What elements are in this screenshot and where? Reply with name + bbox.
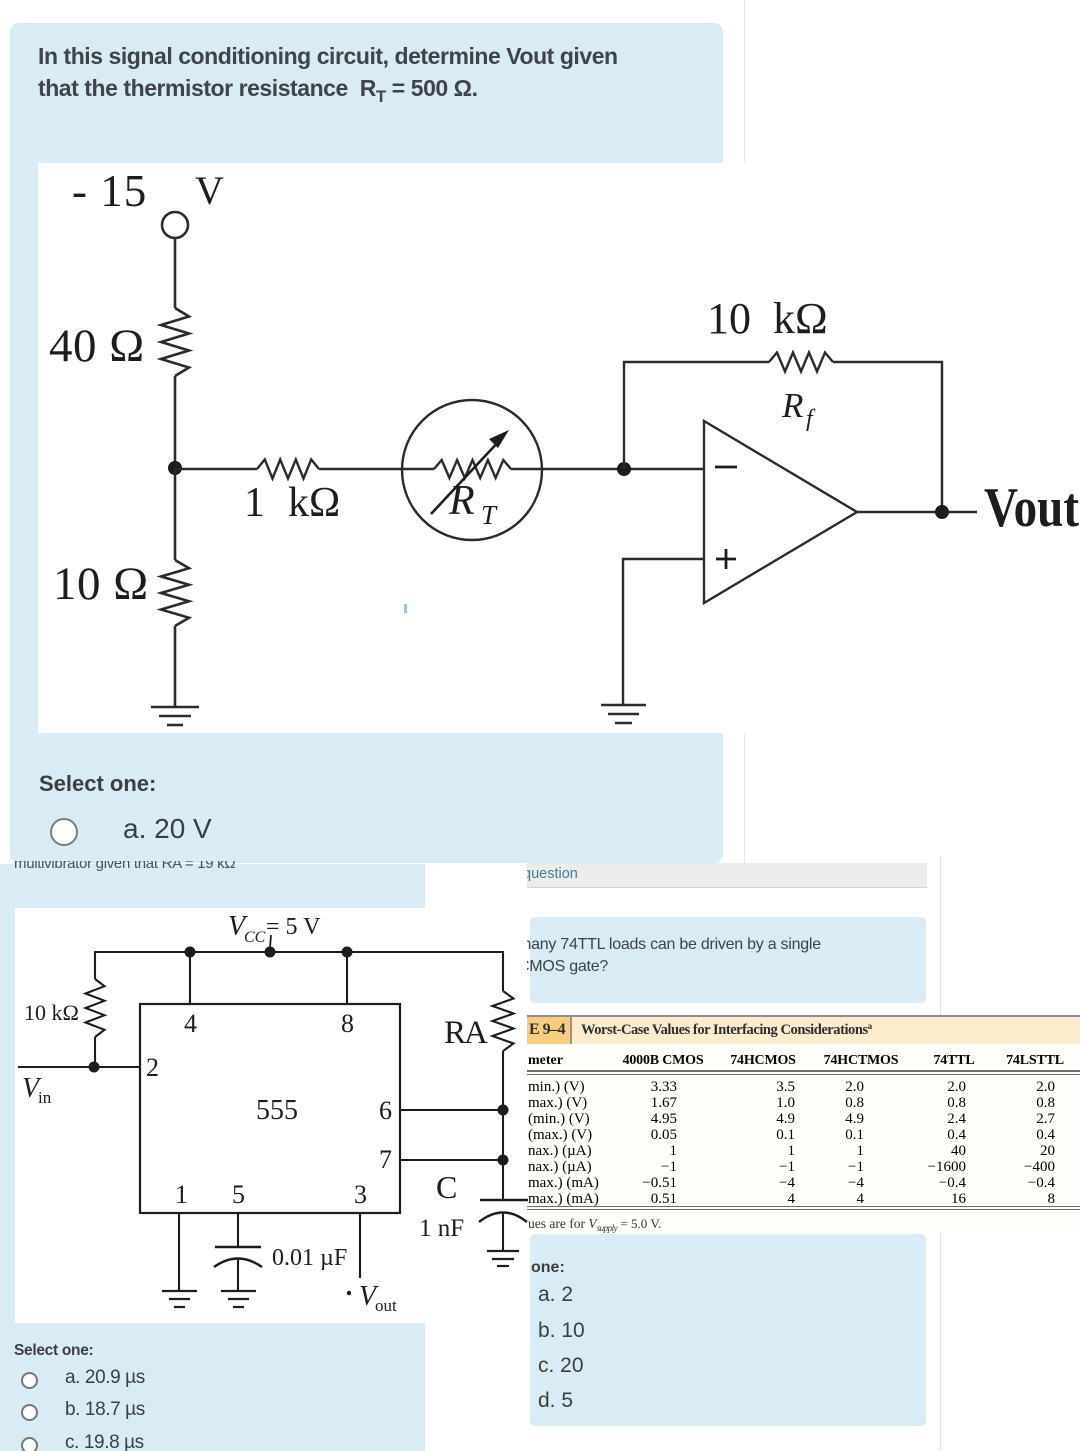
- ground (pin5): [221, 1290, 256, 1292]
- svg-text:555: 555: [256, 1095, 298, 1126]
- select one (card 1): [39, 771, 156, 797]
- wire plus input to ground: [623, 559, 704, 705]
- faint card divider line (upper right): [744, 0, 745, 863]
- wire Vin to pin 2: [18, 1066, 140, 1068]
- wire 1k to thermistor RT: [319, 468, 403, 470]
- pin 6 wire: [400, 1109, 503, 1111]
- RT zigzag element: [434, 460, 511, 478]
- ground (left branch): [151, 706, 199, 709]
- svg-text:7: 7: [379, 1145, 392, 1174]
- table TABLE 9-4 worst-case values: [527, 1015, 1080, 1233]
- feedback wire right/down: [833, 362, 942, 512]
- pin 3 output wire: [359, 1213, 361, 1278]
- stray blue mark: [404, 604, 407, 613]
- resistor 40 ohm: [161, 308, 189, 376]
- svg-text:CC: CC: [244, 929, 266, 946]
- svg-text:C: C: [436, 1169, 457, 1205]
- capacitor 0.01uF: [215, 1246, 261, 1248]
- ground (op-amp plus): [601, 704, 646, 707]
- white circuit panel 2: [15, 908, 528, 1323]
- svg-text:1: 1: [175, 1180, 188, 1209]
- ground (pin1): [162, 1290, 197, 1292]
- table body rows: [528, 1079, 585, 1095]
- svg-text:out: out: [375, 1296, 397, 1315]
- pin 7 wire: [400, 1159, 503, 1161]
- wire node A to 1k resistor: [175, 468, 257, 470]
- svg-text:6: 6: [379, 1096, 392, 1125]
- svg-text:10 kΩ: 10 kΩ: [24, 1000, 79, 1025]
- pin 5 wire: [237, 1213, 239, 1247]
- svg-text:= 5 V: = 5 V: [266, 914, 321, 940]
- svg-text:0.01 µF: 0.01 µF: [272, 1245, 347, 1271]
- pin7 node dot: [498, 1155, 509, 1166]
- radio b: [21, 1404, 38, 1421]
- op-amp minus input sign: [715, 466, 737, 469]
- wire RA to pin6 node: [502, 1051, 504, 1110]
- wire node7 to capacitor C: [502, 1160, 504, 1200]
- clipped question 2 text: [14, 861, 394, 872]
- svg-text:2: 2: [146, 1053, 159, 1082]
- radio c: [21, 1437, 38, 1451]
- radio a: [21, 1372, 38, 1389]
- table column headers: [528, 1053, 563, 1069]
- node B junction dot: [617, 462, 631, 476]
- pin 1 wire: [178, 1213, 180, 1291]
- right card: question text box (blue): [530, 917, 926, 1003]
- svg-text:8: 8: [341, 1009, 354, 1038]
- label Vout (pin3): [347, 1291, 351, 1295]
- RT arrow: [431, 439, 501, 514]
- svg-text:3: 3: [354, 1180, 367, 1209]
- resistor Rf 10k: [769, 353, 833, 372]
- op-amp plus input sign: [716, 558, 736, 561]
- table title row: [527, 1017, 1080, 1044]
- rail junction dots: [185, 947, 196, 958]
- wire: -15V supply to 40ohm: [162, 212, 188, 238]
- capacitor C 1nF: [480, 1199, 528, 1201]
- select one (card 2): [14, 1342, 93, 1360]
- svg-text:in: in: [38, 1088, 52, 1107]
- svg-text:5: 5: [232, 1180, 245, 1209]
- right card: question header box: [527, 863, 927, 888]
- right column card divider: [940, 856, 941, 1451]
- right card: options blue box: [530, 1234, 926, 1426]
- pin 8 stub: [346, 952, 348, 1004]
- op-amp U1 triangle: [704, 421, 857, 603]
- 555 IC box: [140, 1004, 400, 1213]
- white circuit panel 1: [38, 163, 1080, 733]
- Vcc label arrow: [270, 935, 271, 948]
- output wire: [857, 511, 977, 513]
- feedback wire up/over: [624, 362, 769, 469]
- wire node6 to node7: [502, 1110, 504, 1160]
- radio option a (card 1): [50, 818, 78, 846]
- wire RT to node B: [511, 468, 704, 470]
- Vcc top rail wire: [95, 952, 503, 991]
- pin6 node dot: [498, 1105, 509, 1116]
- resistor 10k (left): [86, 979, 105, 1037]
- table footnote: [528, 1216, 661, 1233]
- resistor RA: [493, 991, 514, 1051]
- wire into RT: [403, 468, 434, 470]
- question 1 text: [38, 41, 678, 112]
- resistor 10 ohm: [161, 560, 189, 626]
- svg-text:4: 4: [184, 1009, 197, 1038]
- node A junction dot: [168, 461, 182, 475]
- wire 40ohm to node A: [174, 376, 177, 468]
- circuit 1 svg: [0, 0, 1080, 860]
- pin 4 stub: [189, 952, 191, 1004]
- ground (C branch): [487, 1250, 519, 1252]
- question card 1 (blue): [10, 23, 723, 863]
- wire C to ground: [502, 1213, 504, 1251]
- output node dot: [935, 505, 949, 519]
- question card 2 (blue, bottom-left): [0, 864, 425, 1451]
- wire 10 ohm to ground: [174, 626, 177, 707]
- resistor 1 kohm: [257, 460, 319, 479]
- svg-text:1 nF: 1 nF: [419, 1215, 464, 1242]
- wire 10k to node Vin: [94, 1037, 96, 1067]
- svg-text:RA: RA: [444, 1015, 488, 1051]
- node Vin dot: [89, 1062, 100, 1073]
- wire node A down to 10 ohm: [174, 468, 177, 560]
- thermistor RT circle: [402, 400, 542, 540]
